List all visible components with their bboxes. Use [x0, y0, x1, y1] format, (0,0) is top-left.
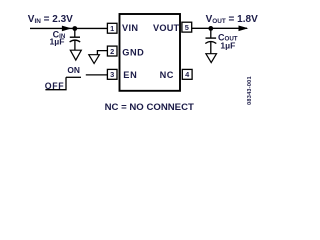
- wire output: [192, 27, 247, 29]
- node output junction: [208, 26, 213, 31]
- pin 3 box: [107, 69, 117, 79]
- pin 1 box: [107, 23, 117, 33]
- svg-text:1µF: 1µF: [220, 40, 235, 50]
- svg-text:VIN = 2.3V: VIN = 2.3V: [28, 14, 73, 25]
- node input junction: [72, 26, 77, 31]
- switch lever ON contact: [66, 76, 81, 78]
- pin 4 box: [182, 69, 192, 79]
- capacitor C_OUT symbol: [205, 28, 216, 53]
- pin 5 box: [182, 22, 192, 32]
- arrowhead output: [239, 26, 249, 32]
- svg-text:VIN: VIN: [122, 23, 138, 33]
- ground for C_OUT: [206, 54, 217, 63]
- svg-text:08343-001: 08343-001: [247, 76, 253, 105]
- capacitor C_IN symbol: [70, 29, 81, 51]
- svg-text:VOUT = 1.8V: VOUT = 1.8V: [206, 14, 258, 25]
- svg-text:1: 1: [110, 24, 114, 33]
- svg-text:2: 2: [110, 47, 114, 56]
- svg-text:NC: NC: [160, 70, 174, 80]
- wire GND pin to ground: [97, 51, 107, 55]
- svg-text:ON: ON: [67, 65, 80, 75]
- svg-text:3: 3: [110, 70, 114, 79]
- svg-text:1µF: 1µF: [50, 36, 65, 46]
- pin 2 box: [107, 46, 117, 56]
- svg-text:5: 5: [185, 23, 189, 32]
- ground for C_IN: [70, 50, 81, 60]
- svg-text:GND: GND: [122, 48, 144, 58]
- arrowhead input: [62, 26, 72, 32]
- IC U1 body: [120, 14, 181, 91]
- wire EN: [86, 74, 108, 76]
- svg-text:VOUT: VOUT: [153, 23, 180, 33]
- wire input: [30, 27, 108, 29]
- switch OFF contact: [45, 77, 66, 89]
- svg-text:EN: EN: [123, 70, 137, 80]
- svg-text:NC = NO CONNECT: NC = NO CONNECT: [105, 102, 194, 113]
- ground for GND pin: [89, 55, 100, 64]
